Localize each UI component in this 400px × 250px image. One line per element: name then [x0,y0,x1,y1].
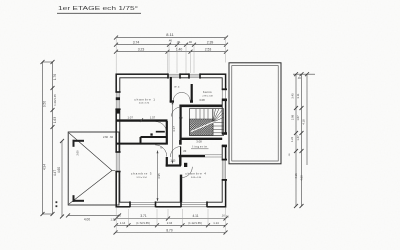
svg-text:4.15: 4.15 [294,173,298,179]
svg-text:w.c: w.c [174,85,180,89]
svg-text:chambre 3: chambre 3 [131,172,152,176]
svg-text:1.76: 1.76 [53,74,57,80]
svg-text:8.70: 8.70 [166,228,172,232]
svg-text:3.11: 3.11 [296,93,300,99]
svg-text:2.98: 2.98 [290,114,294,120]
lingerie bench line [191,148,209,150]
building outer wall [116,74,225,207]
right top mini dim [293,72,315,76]
window mullion chambre1 [116,97,120,100]
chambre 1 bottom wall [116,119,167,121]
svg-text:3.74: 3.74 [133,41,140,45]
garage bottom dim line [66,213,121,217]
corridor right wall upper [180,105,182,145]
svg-text:bains: bains [203,90,212,94]
corridor right wall (lingerie side) [179,140,181,166]
svg-text:3.08 x 3.54: 3.08 x 3.54 [191,177,202,179]
small pillar mark left wall [116,110,120,114]
garage roof outline [68,132,119,205]
corridor left wall (chambre3 side) [166,121,168,167]
svg-text:8.11: 8.11 [166,32,174,37]
window left wall 2 (chambre 3) [115,151,121,172]
svg-text:1.63: 1.63 [53,117,57,123]
window top wall 1 [167,73,181,79]
chambre 3 interior dim line [157,151,159,202]
stair direction arrow [191,122,215,132]
svg-text:3.74 x 3.54: 3.74 x 3.54 [136,177,147,179]
top dimension row 3 [114,50,228,54]
bains door arc [171,107,181,117]
svg-text:4.11: 4.11 [193,214,199,218]
svg-text:3.71: 3.71 [140,214,146,218]
svg-text:.46: .46 [168,39,172,43]
stair lower flight treads [213,109,224,136]
top dimension line 8.11 [114,36,228,40]
right dim column [294,74,307,208]
stair winder fan [213,109,224,122]
closet door stop mark [150,133,152,135]
left dimension column line A [41,60,45,216]
svg-text:1er ETAGE ech 1/75°: 1er ETAGE ech 1/75° [58,6,138,12]
closet walls between hall and chambre 3 [116,137,166,144]
chambre 4 door jamb mark [184,163,187,167]
svg-text:lingerie: lingerie [192,144,207,148]
svg-text:chambre 4: chambre 4 [185,172,206,176]
svg-text:1.30/1.65: 1.30/1.65 [53,94,57,106]
svg-text:.46: .46 [188,40,192,44]
chambre 4 door arc [182,167,193,178]
stairs box [190,109,224,136]
svg-text:.16: .16 [117,214,121,218]
svg-text:.81: .81 [177,40,181,44]
bottom dim extension lines [116,208,225,233]
chambre 1 door leaf [156,131,165,133]
bottom dim row 2 [114,223,228,227]
svg-text:4.60: 4.60 [57,167,61,173]
roof hip diagonal lower [69,171,112,205]
svg-text:3.08: 3.08 [199,98,205,102]
svg-text:4.04 x 3.74: 4.04 x 3.74 [139,102,150,104]
wc door arc (half swing) [173,92,190,100]
roof ridge [112,170,119,172]
bains bottom wall [179,105,222,108]
stair upper flight treads [196,109,213,122]
svg-text:3.08: 3.08 [196,140,202,144]
wc right wall [191,84,193,102]
chambre 4 left wall lower [180,175,182,202]
top dim extension lines [116,37,225,75]
wall below stairs [180,138,222,140]
svg-text:dgt: dgt [179,115,183,119]
svg-text:1.22: 1.22 [290,136,294,142]
svg-text:2.53: 2.53 [205,48,212,52]
svg-text:2.39: 2.39 [207,41,214,45]
svg-text:2.16: 2.16 [167,221,173,225]
svg-text:(1.12/1.65): (1.12/1.65) [188,221,202,225]
roof hip diagonal upper [69,133,112,171]
chambre 1 door arc [156,122,167,133]
window top wall 2 [188,73,201,79]
svg-text:1.40: 1.40 [176,48,183,52]
door right wall (palier/terrace) [221,132,227,147]
lingerie door leaf [180,147,182,157]
svg-text:4.18: 4.18 [301,119,305,125]
svg-text:3.45: 3.45 [290,93,294,99]
svg-text:1.67: 1.67 [296,115,300,121]
window bottom wall 2 (chambre 4) [180,201,208,208]
svg-text:1.14: 1.14 [213,221,219,225]
building inner wall line [120,78,222,202]
title: 1er ETAGE ech 1/75 [57,6,141,13]
svg-text:1.07: 1.07 [127,116,133,120]
svg-text:4.60: 4.60 [299,175,303,181]
stair hatch (palier) [190,119,214,136]
hall dim line 4.17 [172,102,174,164]
wc left wall [170,77,172,102]
left dimension column line B [43,60,55,216]
lingerie door arc (swings into corridor) [170,147,181,158]
svg-text:1.57: 1.57 [150,116,156,120]
svg-text:.30: .30 [297,76,301,80]
svg-text:3.23: 3.23 [138,48,145,52]
chambre 3 door arc [155,145,167,157]
terrace inner border [232,66,278,161]
lingerie bottom wall [179,155,205,158]
wc bottom wall [170,100,193,102]
svg-text:.26: .26 [225,215,229,219]
svg-text:2.60: 2.60 [76,150,80,156]
garage wall corner mark top-left [73,140,85,147]
terrace outer border [229,63,281,164]
bottom dim row 1 [114,217,228,221]
window right wall (bains) [221,88,227,101]
svg-text:1.14: 1.14 [120,221,126,225]
svg-text:3.95: 3.95 [157,173,161,179]
window bottom wall 1 (chambre 3) [129,201,156,208]
garage wall corner mark bottom-left [73,195,85,202]
svg-text:4.17: 4.17 [172,126,176,132]
svg-text:4.94: 4.94 [43,164,47,170]
corridor end wall [166,164,181,166]
svg-text:1.47: 1.47 [296,135,300,141]
bottom dim row 3 (total 8.70) [114,231,228,235]
svg-text:2.60 .60: 2.60 .60 [103,135,114,139]
window right wall (chambre 4) [221,159,227,181]
svg-text:2.05: 2.05 [171,160,176,163]
svg-text:4.00: 4.00 [84,218,90,222]
window left wall 1 (chambre 1) [115,91,121,110]
scan speckle noise [0,0,1,1]
top dimension row 2 [114,43,228,47]
svg-text:(1.72/1.65): (1.72/1.65) [136,221,150,225]
garage left dim line [60,139,64,219]
svg-text:9.50: 9.50 [43,101,47,107]
svg-text:chambre 1: chambre 1 [134,97,155,101]
